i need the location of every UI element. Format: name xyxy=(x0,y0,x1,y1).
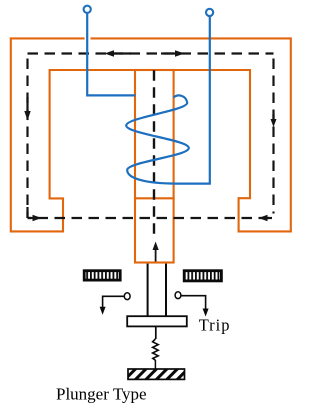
plunger divider line xyxy=(134,197,175,199)
flux path top (dashed) xyxy=(28,52,274,54)
ground (hatched block) xyxy=(128,369,185,379)
stop block right (hatched) xyxy=(184,271,221,281)
crosshead bar xyxy=(127,316,187,326)
svg-text:Plunger Type: Plunger Type xyxy=(56,385,147,404)
wire from right terminal down to coil bottom xyxy=(176,17,210,184)
gap in yoke top edge where left terminal wire passes xyxy=(85,37,91,40)
flux arrow left-side (pointing down) xyxy=(24,97,30,121)
flux arrow top-left (pointing left) xyxy=(105,50,132,56)
plunger stem (shaft) xyxy=(148,264,166,316)
spring (zigzag) xyxy=(153,339,159,360)
flux path bottom (dashed) xyxy=(28,217,274,219)
contact right (circle, wire and down arrow) xyxy=(175,292,209,317)
flux arrow bottom-left corner (elbow, pointing right) xyxy=(28,207,42,221)
flux arrow bottom-right (pointing left) xyxy=(259,215,273,221)
spring link lower tick xyxy=(154,360,156,369)
wire from left terminal to coil top xyxy=(87,14,135,96)
svg-text:Trip: Trip xyxy=(199,316,231,335)
flux arrow in plunger (pointing up) xyxy=(153,242,159,262)
flux path right (dashed) xyxy=(272,54,274,214)
contact left (circle, wire and down arrow) xyxy=(100,293,130,315)
coil (blue winding around plunger) xyxy=(126,95,189,183)
plunger (orange moving core) xyxy=(135,70,174,263)
flux path center line (dashed, through plunger) xyxy=(153,70,155,234)
spring link upper tick xyxy=(155,326,157,339)
stop block left (hatched) xyxy=(84,271,120,280)
terminal right xyxy=(206,9,213,16)
flux path left (dashed) xyxy=(26,54,28,219)
flux arrow right-side (pointing down) xyxy=(271,114,277,127)
core yoke (orange magnetic frame outline) xyxy=(11,38,291,231)
terminal left xyxy=(84,6,91,13)
flux arrow top-right (pointing right) xyxy=(161,50,185,56)
